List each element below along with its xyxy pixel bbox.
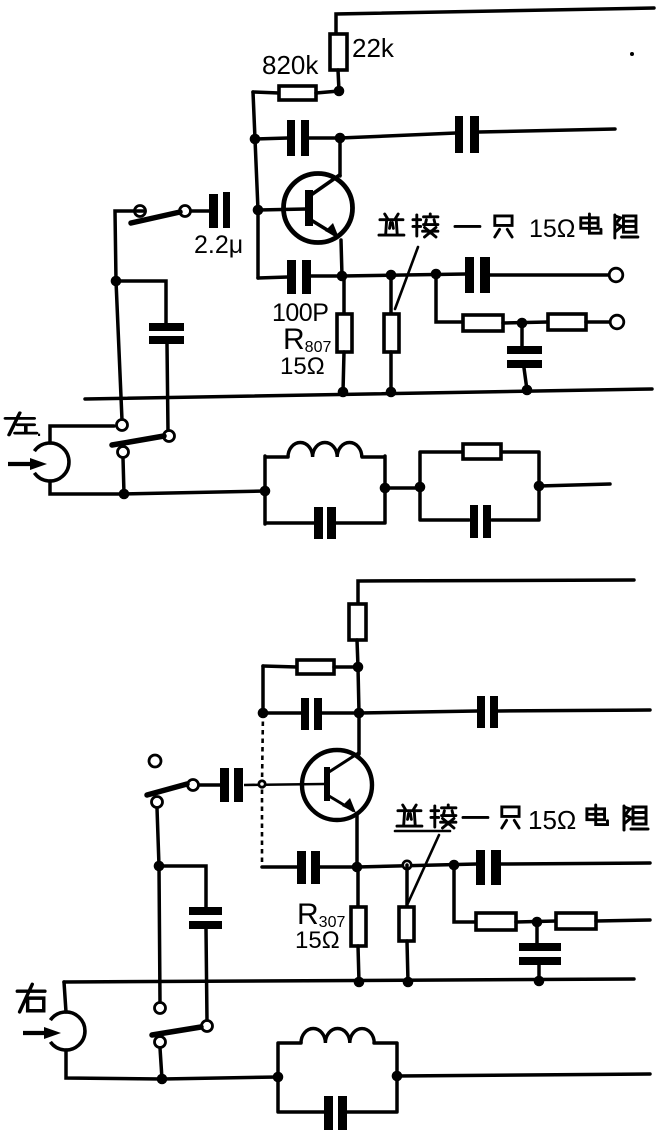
wire: R11 to node xyxy=(516,921,556,922)
node: pivot junction ch2 xyxy=(157,1074,168,1085)
resistor R1 22k xyxy=(330,34,347,70)
capacitor C7 (divider shunt) xyxy=(507,346,542,354)
wire: 100P line from left vertical xyxy=(258,277,288,278)
wire: input vertical down ch2 xyxy=(159,866,160,1002)
capacitor C8 (tank1) xyxy=(314,507,323,539)
wire: C6 to output terminal xyxy=(490,273,610,277)
node: R3 on rail xyxy=(386,387,397,398)
svg-text:15Ω: 15Ω xyxy=(280,353,325,380)
capacitor C17 (tank3) xyxy=(324,1096,333,1130)
svg-text:820k: 820k xyxy=(262,50,319,80)
jack J1 plug arrow xyxy=(8,462,33,466)
node: R10 top xyxy=(403,861,411,869)
wire: emitter line y865 xyxy=(357,864,477,867)
node: C7 on rail xyxy=(522,385,533,396)
capacitor C5 100P xyxy=(287,260,296,294)
switch SW1b contact top xyxy=(117,420,128,431)
wire: C2 right to line end xyxy=(479,129,615,132)
speck xyxy=(630,52,634,56)
transistor Q2 base bar xyxy=(324,767,330,801)
node: tank3 right xyxy=(392,1071,403,1082)
svg-text:15Ω: 15Ω xyxy=(295,927,340,954)
annotation ch1: parallel 15ohm resistor text xyxy=(379,214,638,243)
capacitor C9 (tank2) xyxy=(470,505,478,538)
wire: emitter line y~275 xyxy=(342,274,466,276)
wire: emitter vertical xyxy=(341,240,342,276)
switch SW1a contact left xyxy=(135,206,146,217)
wire: collector vertical into transistor xyxy=(338,138,342,176)
rail: ch2 ground rail xyxy=(64,979,634,982)
wire: branch down to divider line xyxy=(436,274,463,322)
switch SW2b contact right xyxy=(202,1021,213,1032)
wire: R12 to edge xyxy=(596,920,650,921)
resistor R3 (paralleled 15ohm) xyxy=(389,275,393,315)
wire: cap line y~138 left xyxy=(255,138,288,139)
wire: R4 to node xyxy=(503,322,548,323)
node: C16 on rail xyxy=(534,976,545,987)
wire: 22k bottom to node xyxy=(338,70,339,91)
transistor Q2 circle xyxy=(302,750,372,820)
wire: R7 bottom to node xyxy=(357,640,358,667)
capacitor C16 (divider shunt ch2) xyxy=(519,943,561,951)
terminal: output 1 xyxy=(609,268,623,282)
wire: base lead from node to bar xyxy=(258,209,306,210)
jack J1 (left input) xyxy=(34,443,69,481)
wire: emitter vertical ch2 xyxy=(355,815,359,867)
capacitor C13 (attenuator ch2) xyxy=(189,907,222,915)
node: R307 on rail xyxy=(354,977,365,988)
resistor R10 (paralleled 15ohm ch2) xyxy=(405,865,409,908)
capacitor C4 (attenuator) xyxy=(149,323,184,331)
wire: jack2 bottom to tank3 xyxy=(66,1050,278,1079)
wire: left vertical upper ch2 xyxy=(261,666,265,713)
resistor R807 15ohm xyxy=(342,276,346,315)
wire: 820k left lead xyxy=(253,92,279,93)
transistor Q1 base bar xyxy=(305,190,313,226)
resistor R5 (divider series 2) xyxy=(548,314,586,330)
resistor R7 (22k equiv) xyxy=(349,604,366,640)
terminal: output 2 xyxy=(610,315,624,329)
wire: input vertical down to lower switch xyxy=(116,281,122,420)
switch SW2b contact top xyxy=(155,1003,166,1014)
wire: switch to 2.2u xyxy=(190,209,209,213)
transistor Q1 circle xyxy=(284,174,353,243)
wire: base lead ch2 xyxy=(244,784,324,785)
node: pivot junction xyxy=(119,489,130,500)
resistor R8 (820k equiv) xyxy=(297,660,334,674)
leader line ch2 xyxy=(408,835,439,903)
transistor Q2 emitter stroke w/ arrow xyxy=(329,796,354,811)
wire: branch to attenuator cap xyxy=(116,281,166,324)
capacitor C14 (100P equiv ch2) xyxy=(297,851,306,884)
switch SW2a contact right xyxy=(188,780,199,791)
wire: C14 to emitter node xyxy=(320,865,357,869)
resistor R12 (divider series 2 ch2) xyxy=(556,913,596,929)
wire: corner to left contact xyxy=(115,211,145,281)
svg-text:15Ω: 15Ω xyxy=(529,215,576,243)
svg-text:2.2μ: 2.2μ xyxy=(194,231,243,259)
wire: V+ rail ch2 xyxy=(358,580,634,604)
inductor L1 xyxy=(288,443,362,457)
switch SW1a arm xyxy=(131,212,180,223)
wire: divider mid down to cap ch2 xyxy=(535,922,539,944)
node: tank3 left xyxy=(273,1072,284,1083)
wire: V+ top rail ch1 xyxy=(336,8,654,34)
wire: branch to cap C13 xyxy=(159,866,206,908)
node: tank1 right xyxy=(380,483,391,494)
wire: line y712 to right with C11 xyxy=(359,711,477,713)
switch SW2b arm xyxy=(152,1027,201,1035)
resistor R4 (divider series 1) xyxy=(463,315,503,331)
resistor R6 (tank2 top) xyxy=(463,444,501,459)
wire: jack bottom to tank1 xyxy=(50,481,265,494)
capacitor C10 (feedback ch2) xyxy=(301,698,309,730)
wire: collector vertical ch2 xyxy=(358,667,359,754)
capacitor C3 2.2u xyxy=(209,194,218,228)
wire: R5 to output terminal 2 xyxy=(586,320,610,324)
node: attenuator branch y281 xyxy=(111,276,122,287)
wire: R8 right lead xyxy=(334,665,358,669)
node: left vertical y713 xyxy=(258,708,269,719)
wire: jack2 top to rail xyxy=(64,982,66,1012)
junction circle on dashed line xyxy=(259,781,265,787)
wire: 100P to emitter node xyxy=(311,274,342,278)
wire: C10 to node xyxy=(322,711,359,715)
wire: tank2 output xyxy=(539,484,610,486)
switch SW1b contact right xyxy=(164,431,175,442)
wire: tank1 to tank2 xyxy=(385,486,420,490)
wire: attenuator cap down to contact xyxy=(167,344,168,431)
node: 22k/820k junction xyxy=(334,86,345,97)
switch SW2a arm xyxy=(147,784,187,795)
capacitor C11 (output coupling ch2 top) xyxy=(477,696,485,728)
node: tank2 right xyxy=(534,481,545,492)
node: R10 on rail xyxy=(403,977,414,988)
node: base/2.2u junction xyxy=(253,205,264,216)
switch SW1a contact right xyxy=(180,206,191,217)
tank 1: L-C parallel (ch1) xyxy=(265,456,385,524)
label zuo (left) xyxy=(5,413,36,435)
transistor Q1 collector stroke xyxy=(311,174,341,195)
node: emitter y276 xyxy=(337,271,348,282)
wire: emitter line y866 left corner xyxy=(262,865,298,869)
wire: C16 down to rail xyxy=(537,965,541,981)
wire: left vertical x~255 (feedback column) xyxy=(253,92,258,278)
tank 3: L-C parallel (ch2) xyxy=(278,1043,397,1112)
switch SW1b pivot contact xyxy=(118,447,129,458)
wire: tank3 output xyxy=(397,1074,650,1076)
capacitor C6 (emitter out coupling) xyxy=(465,257,474,293)
wire: divider mid down to cap xyxy=(520,323,524,347)
wire: jack top to switch contact xyxy=(50,426,114,443)
node: switch branch ch2 xyxy=(154,861,165,872)
node: branch y865 xyxy=(449,860,460,871)
capacitor C2 (output coupling top) xyxy=(455,116,463,153)
resistor R11 (divider series 1 ch2) xyxy=(476,913,516,930)
wire: cap C1 to node x340 xyxy=(309,136,340,140)
wire: pivot down to jack bottom wire xyxy=(123,458,124,494)
node: left vertical y139 xyxy=(250,134,261,145)
rail: ch1 ground rail xyxy=(85,389,652,399)
node: tank2 left xyxy=(415,482,426,493)
switch SW1b arm xyxy=(112,436,164,445)
wire: C7 down to rail xyxy=(524,368,527,390)
switch SW2b pivot xyxy=(155,1037,166,1048)
transistor Q2 collector stroke xyxy=(329,752,360,772)
capacitor C1 (feedback, line y138) xyxy=(287,120,295,156)
tank 2: R-C parallel (ch1) xyxy=(420,452,539,520)
resistor R307 15ohm xyxy=(356,867,360,908)
jack J2 (right input) xyxy=(50,1012,85,1050)
node: emitter ch2 xyxy=(352,862,363,873)
node: tank1 left xyxy=(260,486,271,497)
svg-text:22k: 22k xyxy=(352,33,395,63)
node: collector line x340 y138 xyxy=(335,133,346,144)
label you (right) xyxy=(17,984,45,1012)
annotation ch2: parallel 15ohm resistor text xyxy=(395,805,648,835)
node: divider mid ch2 xyxy=(532,917,543,928)
wire: left vertical dashed ch2 xyxy=(262,713,263,867)
wire: pivot down to node xyxy=(157,808,159,866)
wire: pivot down to jack bottom wire xyxy=(160,1048,162,1079)
capacitor C12 (input coupling ch2) xyxy=(220,768,229,802)
leader line to paralleled resistor xyxy=(395,247,418,309)
transistor Q1 emitter stroke w/ arrow xyxy=(311,220,337,236)
svg-text:15Ω: 15Ω xyxy=(528,805,576,835)
wire: branch down to divider ch2 xyxy=(454,865,476,922)
wire: cap line y713 left xyxy=(263,711,302,715)
node: R2 top xyxy=(386,270,397,281)
jack J2 plug arrow xyxy=(23,1031,46,1035)
switch SW2a pivot xyxy=(152,797,163,808)
switch SW2a contact upper (unused) xyxy=(149,755,161,767)
resistor R2 820k xyxy=(279,86,316,100)
wire: 820k-equiv left lead xyxy=(263,666,297,667)
node: collector line ch2 xyxy=(354,708,365,719)
node: R7/R8 junction xyxy=(353,662,364,673)
wire: 820k right lead to node xyxy=(316,91,339,93)
wire: C11 right segment xyxy=(498,710,650,711)
svg-text:.: . xyxy=(36,416,42,441)
inductor L2 xyxy=(301,1029,374,1044)
wire: C15 right to edge xyxy=(501,863,650,864)
wire: switch to C12 xyxy=(198,783,220,787)
node: branch y274 xyxy=(431,269,442,280)
node: divider mid xyxy=(517,318,528,329)
wire: output line y~133 to right xyxy=(340,133,456,138)
node: R807 on rail xyxy=(338,387,349,398)
capacitor C15 (emitter out coupling ch2) xyxy=(476,850,485,885)
wire: C13 down to contact xyxy=(206,929,207,1021)
